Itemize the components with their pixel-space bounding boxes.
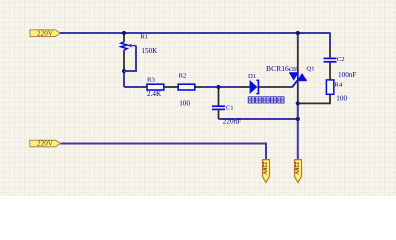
- svg-text:Q1: Q1: [306, 66, 314, 73]
- pin R3 left (black): [140, 86, 147, 88]
- svg-text:100: 100: [179, 99, 190, 107]
- wire R1 wiper loop: [124, 46, 136, 71]
- svg-text:220V: 220V: [261, 162, 267, 176]
- svg-text:220V: 220V: [293, 162, 299, 176]
- pin D1 left (black): [237, 86, 250, 88]
- svg-text:100nF: 100nF: [338, 71, 356, 79]
- pin C2 top (black): [329, 48, 331, 59]
- svg-text:C1: C1: [226, 105, 234, 112]
- wire triac MT2 stub: [297, 33, 299, 40]
- port load 1 (vertical, bottom): [261, 160, 269, 183]
- svg-text:D1: D1: [248, 73, 256, 80]
- wire mid rail left of R3: [124, 86, 140, 88]
- pin R2 right (black): [195, 86, 205, 88]
- port 220V (bottom-left): [30, 140, 61, 148]
- pin C1 top (black): [218, 87, 220, 106]
- wire R1 bottom to mid rail: [123, 70, 125, 87]
- capacitor C2: [324, 58, 337, 61]
- wire C2 branch drop: [329, 33, 331, 48]
- wire D1 to gate bend (black): [259, 86, 292, 88]
- wire R4 bottom L to triac line (black): [299, 94, 330, 103]
- svg-text:R1: R1: [140, 33, 148, 40]
- potentiometer R1 zigzag: [121, 42, 127, 50]
- svg-text:BCR16cm: BCR16cm: [266, 64, 298, 73]
- svg-text:R2: R2: [179, 73, 187, 80]
- wire between R3 and R2 (black): [164, 86, 178, 88]
- wire top rail: [60, 32, 331, 34]
- svg-text:R4: R4: [334, 81, 342, 88]
- label 双向触发管 (pseudo CJK glyphs): [248, 97, 284, 103]
- resistor R2: [178, 84, 195, 90]
- resistor R3: [147, 84, 164, 90]
- svg-text:R3: R3: [147, 76, 155, 83]
- pin C1 bottom (black): [218, 110, 220, 119]
- port load 2 (vertical, bottom): [293, 160, 301, 183]
- diac D1: [250, 80, 259, 95]
- svg-text:220V: 220V: [37, 140, 54, 148]
- wire R2 to D1: [205, 86, 237, 88]
- svg-text:C2: C2: [337, 56, 345, 63]
- wire R1 top stub: [123, 34, 125, 42]
- capacitor C1: [212, 106, 225, 109]
- junction top rail / triac: [296, 31, 300, 35]
- potentiometer R1 wiper arrow: [129, 45, 136, 47]
- resistor R4: [326, 80, 333, 94]
- pin R1 bottom run (black): [123, 50, 125, 70]
- svg-text:220nF: 220nF: [223, 117, 241, 125]
- junction top rail / R1: [122, 31, 126, 35]
- triac Q1: [289, 71, 307, 81]
- svg-text:100: 100: [336, 94, 347, 102]
- wire bottom-left port run: [61, 144, 267, 160]
- junction R1 wiper loop: [122, 69, 126, 73]
- wire bottom rail C1 to triac line: [219, 118, 298, 120]
- pin C2 bottom to R4 top (black): [329, 63, 331, 80]
- junction mid rail / C1: [216, 85, 220, 89]
- wire gate diagonal: [292, 80, 298, 87]
- wire triac MT1 down to port: [297, 102, 299, 159]
- pin triac MT1 (black): [297, 80, 299, 102]
- junction R4 return / triac line: [296, 101, 300, 105]
- svg-text:150K: 150K: [141, 47, 158, 55]
- port 220V (top-left input): [30, 30, 60, 38]
- svg-text:220V: 220V: [37, 30, 54, 38]
- junction bottom rail / triac line: [296, 117, 300, 121]
- svg-text:2.4K: 2.4K: [147, 90, 162, 98]
- pin triac MT2 (black): [297, 40, 299, 71]
